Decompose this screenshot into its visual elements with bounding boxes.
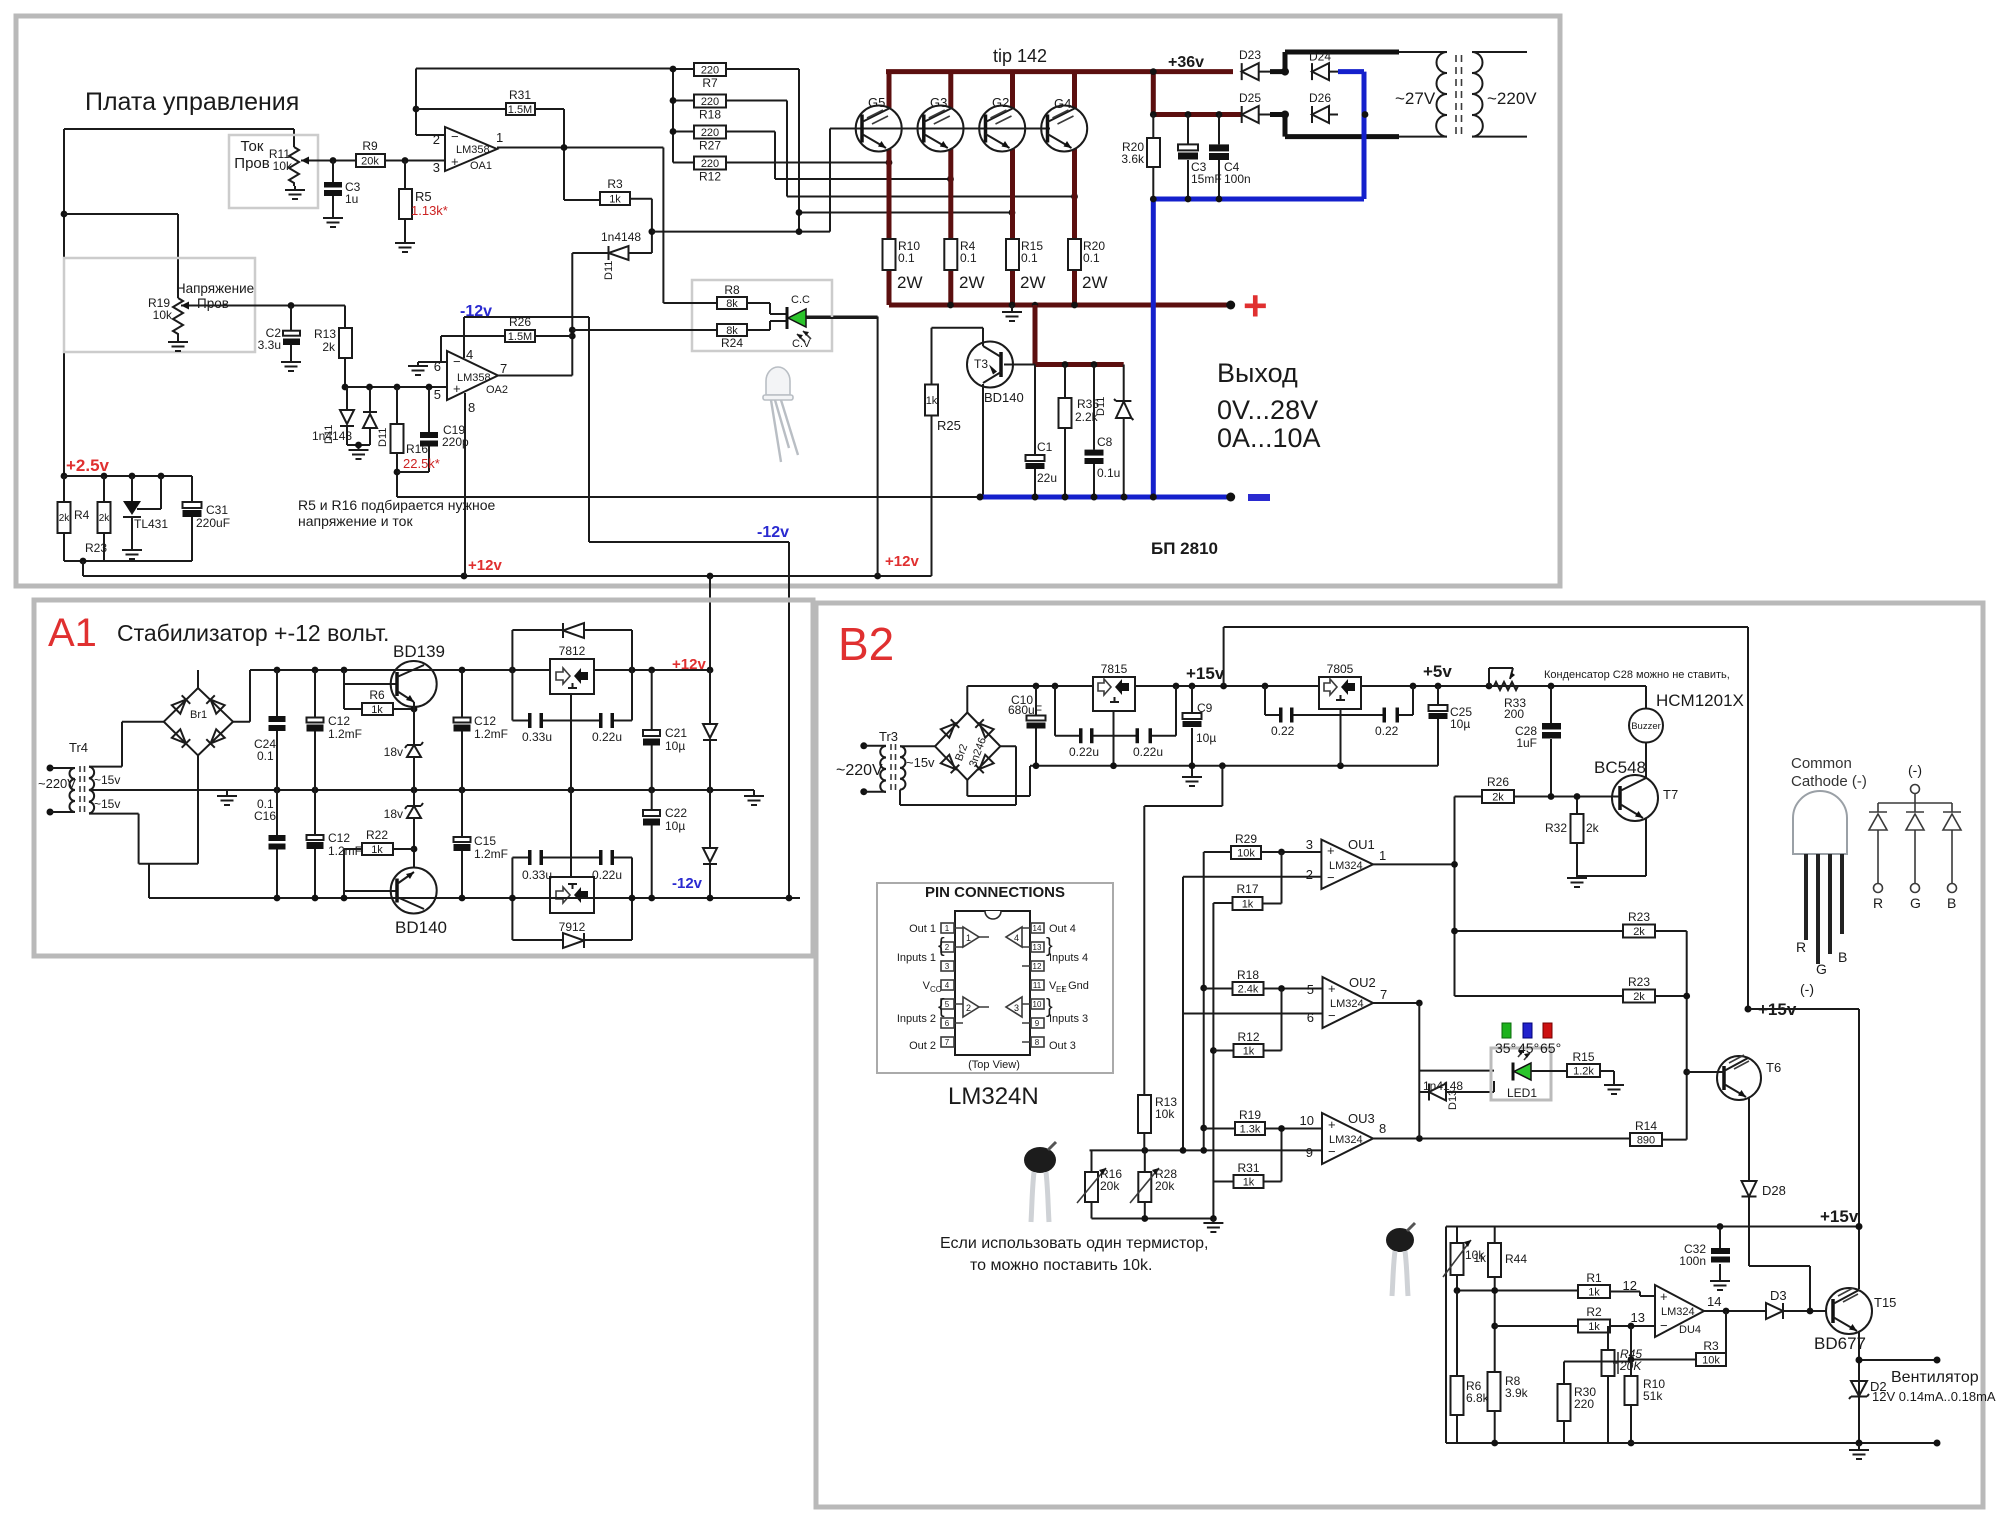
svg-text:2: 2 bbox=[1306, 867, 1313, 882]
svg-text:~15v: ~15v bbox=[906, 755, 935, 770]
svg-text:2k: 2k bbox=[322, 340, 336, 354]
svg-text:10µ: 10µ bbox=[665, 739, 685, 753]
svg-text:+12v: +12v bbox=[672, 656, 706, 673]
svg-text:1.3k: 1.3k bbox=[1240, 1124, 1261, 1136]
svg-text:12: 12 bbox=[1033, 962, 1042, 971]
svg-text:C8: C8 bbox=[1097, 435, 1113, 449]
svg-text:R27: R27 bbox=[699, 139, 721, 153]
svg-text:C12: C12 bbox=[328, 714, 350, 728]
svg-text:R19: R19 bbox=[1239, 1108, 1261, 1122]
svg-text:1k: 1k bbox=[1243, 1177, 1255, 1189]
svg-text:+: + bbox=[1243, 282, 1268, 329]
svg-text:2k: 2k bbox=[1586, 821, 1600, 835]
svg-text:3.3u: 3.3u bbox=[258, 338, 281, 352]
svg-text:0.1: 0.1 bbox=[257, 749, 274, 763]
svg-text:2: 2 bbox=[945, 943, 950, 952]
svg-text:Br1: Br1 bbox=[190, 709, 207, 721]
svg-text:2k: 2k bbox=[1633, 991, 1645, 1003]
svg-text:14: 14 bbox=[1033, 924, 1042, 933]
svg-text:2k: 2k bbox=[1633, 926, 1645, 938]
svg-text:-12v: -12v bbox=[757, 524, 789, 541]
svg-text:C21: C21 bbox=[665, 726, 687, 740]
svg-text:3.6k: 3.6k bbox=[1121, 152, 1145, 166]
svg-text:3: 3 bbox=[433, 160, 440, 175]
svg-text:R: R bbox=[1796, 939, 1806, 955]
svg-text:13: 13 bbox=[1033, 943, 1042, 952]
svg-text:LM358: LM358 bbox=[457, 372, 491, 384]
svg-text:65°: 65° bbox=[1540, 1040, 1561, 1056]
svg-text:G3: G3 bbox=[930, 95, 947, 110]
svg-text:R24: R24 bbox=[721, 336, 743, 350]
svg-text:R17: R17 bbox=[1236, 882, 1258, 896]
svg-text:1: 1 bbox=[966, 933, 971, 943]
svg-text:6: 6 bbox=[945, 1019, 950, 1028]
svg-text:51k: 51k bbox=[1643, 1389, 1663, 1403]
svg-text:BC548: BC548 bbox=[1594, 758, 1646, 777]
svg-text:D3: D3 bbox=[1770, 1288, 1787, 1303]
svg-text:+5v: +5v bbox=[1423, 662, 1452, 681]
svg-text:то можно поставить 10k.: то можно поставить 10k. bbox=[970, 1257, 1153, 1274]
svg-text:3.9k: 3.9k bbox=[1505, 1386, 1529, 1400]
svg-text:10k: 10k bbox=[273, 159, 293, 173]
svg-text:220p: 220p bbox=[442, 435, 469, 449]
svg-text:1k: 1k bbox=[609, 194, 621, 206]
svg-text:0.1: 0.1 bbox=[898, 251, 915, 265]
svg-text:−: − bbox=[1327, 870, 1335, 885]
svg-text:R12: R12 bbox=[1237, 1030, 1259, 1044]
svg-text:D28: D28 bbox=[1762, 1183, 1786, 1198]
svg-text:R18: R18 bbox=[1237, 968, 1259, 982]
svg-text:B: B bbox=[1947, 895, 1956, 911]
svg-text:Out 2: Out 2 bbox=[909, 1040, 936, 1052]
svg-text:D13: D13 bbox=[1447, 1090, 1459, 1110]
svg-text:20k: 20k bbox=[361, 156, 379, 168]
svg-text:2W: 2W bbox=[1082, 273, 1108, 292]
svg-text:1.2mF: 1.2mF bbox=[474, 847, 508, 861]
svg-text:1k: 1k bbox=[1243, 1046, 1255, 1058]
svg-text:напряжение и ток: напряжение и ток bbox=[298, 513, 413, 529]
svg-text:220: 220 bbox=[701, 65, 719, 77]
svg-text:0V...28V: 0V...28V bbox=[1217, 395, 1318, 425]
svg-text:7815: 7815 bbox=[1101, 662, 1128, 676]
svg-text:D11: D11 bbox=[377, 428, 389, 447]
svg-text:Inputs 1: Inputs 1 bbox=[897, 952, 936, 964]
svg-text:}: } bbox=[1046, 996, 1053, 1018]
svg-text:890: 890 bbox=[1637, 1135, 1655, 1147]
svg-text:C1: C1 bbox=[1037, 440, 1053, 454]
svg-text:1k: 1k bbox=[371, 704, 383, 716]
svg-text:15mF: 15mF bbox=[1191, 172, 1222, 186]
svg-text:R7: R7 bbox=[702, 76, 718, 90]
svg-text:D24: D24 bbox=[1309, 50, 1331, 64]
svg-text:Out 1: Out 1 bbox=[909, 923, 936, 935]
svg-text:Common: Common bbox=[1791, 755, 1852, 772]
svg-text:TL431: TL431 bbox=[134, 517, 168, 531]
svg-text:Стабилизатор +-12 вольт.: Стабилизатор +-12 вольт. bbox=[117, 620, 389, 646]
svg-text:8: 8 bbox=[1379, 1121, 1386, 1136]
svg-text:10µ: 10µ bbox=[1196, 731, 1216, 745]
svg-text:1k: 1k bbox=[1588, 1287, 1600, 1299]
svg-text:10µ: 10µ bbox=[1450, 717, 1470, 731]
svg-text:R3: R3 bbox=[607, 177, 623, 191]
svg-text:1k: 1k bbox=[1588, 1321, 1600, 1333]
svg-text:R16: R16 bbox=[406, 442, 428, 456]
svg-text:A1: A1 bbox=[48, 611, 97, 655]
svg-text:Buzzer: Buzzer bbox=[1631, 721, 1661, 732]
svg-text:4: 4 bbox=[466, 347, 473, 362]
svg-text:3: 3 bbox=[1306, 837, 1313, 852]
svg-text:+: + bbox=[451, 154, 459, 169]
svg-text:2.4k: 2.4k bbox=[1238, 984, 1259, 996]
svg-text:10k: 10k bbox=[1237, 848, 1255, 860]
svg-text:10: 10 bbox=[1033, 1000, 1042, 1009]
svg-text:R29: R29 bbox=[1235, 832, 1257, 846]
svg-text:+2.5v: +2.5v bbox=[66, 456, 110, 475]
svg-text:5: 5 bbox=[1307, 982, 1314, 997]
svg-text:3: 3 bbox=[1014, 1003, 1019, 1013]
svg-text:8: 8 bbox=[468, 400, 475, 415]
svg-text:G5: G5 bbox=[868, 95, 885, 110]
svg-text:{: { bbox=[938, 996, 945, 1018]
svg-text:B: B bbox=[1838, 949, 1847, 965]
svg-text:+: + bbox=[1328, 1117, 1336, 1132]
svg-text:R3: R3 bbox=[1703, 1339, 1719, 1353]
svg-text:D26: D26 bbox=[1309, 91, 1331, 105]
svg-text:LM324: LM324 bbox=[1330, 998, 1364, 1010]
svg-text:680uF: 680uF bbox=[1008, 703, 1042, 717]
svg-text:~220V: ~220V bbox=[1487, 89, 1537, 108]
svg-text:D25: D25 bbox=[1239, 91, 1261, 105]
svg-text:Плата управления: Плата управления bbox=[85, 88, 299, 116]
svg-text:100n: 100n bbox=[1679, 1254, 1706, 1268]
svg-text:0.22: 0.22 bbox=[1375, 724, 1399, 738]
svg-text:1n4148: 1n4148 bbox=[601, 230, 641, 244]
svg-text:C12: C12 bbox=[474, 714, 496, 728]
svg-text:35°: 35° bbox=[1495, 1040, 1516, 1056]
svg-text:20k: 20k bbox=[1155, 1179, 1175, 1193]
svg-text:R44: R44 bbox=[1505, 1252, 1527, 1266]
svg-text:CC: CC bbox=[930, 985, 942, 994]
svg-text:1u: 1u bbox=[345, 192, 358, 206]
svg-text:1.2k: 1.2k bbox=[1573, 1066, 1594, 1078]
svg-text:10: 10 bbox=[1300, 1113, 1314, 1128]
svg-text:2k: 2k bbox=[99, 513, 111, 524]
svg-text:1.2mF: 1.2mF bbox=[328, 727, 362, 741]
svg-text:0A...10A: 0A...10A bbox=[1217, 423, 1321, 453]
svg-text:7: 7 bbox=[1380, 987, 1387, 1002]
svg-text:B2: B2 bbox=[838, 618, 894, 670]
svg-text:LM358: LM358 bbox=[456, 144, 490, 156]
svg-text:Напряжение: Напряжение bbox=[176, 281, 254, 296]
svg-text:R31: R31 bbox=[509, 88, 531, 102]
svg-text:БП 2810: БП 2810 bbox=[1151, 539, 1218, 558]
svg-text:R14: R14 bbox=[1635, 1119, 1657, 1133]
svg-text:1.5M: 1.5M bbox=[508, 104, 532, 116]
svg-text:22.5k*: 22.5k* bbox=[403, 456, 440, 471]
svg-text:~27V: ~27V bbox=[1395, 89, 1436, 108]
svg-text:1.5M: 1.5M bbox=[508, 331, 532, 343]
svg-text:45°: 45° bbox=[1518, 1040, 1539, 1056]
svg-text:BD140: BD140 bbox=[395, 918, 447, 937]
svg-text:R8: R8 bbox=[724, 283, 740, 297]
svg-text:220: 220 bbox=[701, 127, 719, 139]
svg-text:2W: 2W bbox=[897, 273, 923, 292]
svg-text:G: G bbox=[1816, 961, 1827, 977]
svg-text:2: 2 bbox=[966, 1003, 971, 1013]
svg-text:R1: R1 bbox=[1586, 1271, 1602, 1285]
svg-text:Tr4: Tr4 bbox=[69, 740, 88, 755]
svg-text:10k: 10k bbox=[1702, 1355, 1720, 1367]
svg-text:}: } bbox=[1046, 935, 1053, 957]
svg-text:OU1: OU1 bbox=[1348, 837, 1375, 852]
svg-text:LM324N: LM324N bbox=[948, 1083, 1039, 1110]
svg-text:LM324: LM324 bbox=[1329, 860, 1363, 872]
svg-text:0.33u: 0.33u bbox=[522, 868, 552, 882]
svg-text:+12v: +12v bbox=[468, 557, 502, 574]
svg-text:D11: D11 bbox=[603, 261, 615, 280]
svg-text:(-): (-) bbox=[1908, 762, 1922, 778]
svg-text:C12: C12 bbox=[328, 831, 350, 845]
svg-text:R5: R5 bbox=[415, 189, 432, 204]
svg-text:9: 9 bbox=[1035, 1019, 1040, 1028]
svg-text:HCM1201X: HCM1201X bbox=[1656, 691, 1744, 710]
svg-text:1.2mF: 1.2mF bbox=[328, 844, 362, 858]
svg-text:2k: 2k bbox=[1492, 792, 1504, 804]
svg-text:10k: 10k bbox=[153, 308, 173, 322]
svg-text:0.1u: 0.1u bbox=[1097, 466, 1120, 480]
svg-text:~220V: ~220V bbox=[38, 776, 76, 791]
svg-text:LED1: LED1 bbox=[1507, 1086, 1537, 1100]
svg-text:1k: 1k bbox=[371, 844, 383, 856]
svg-text:220: 220 bbox=[1574, 1397, 1594, 1411]
svg-text:0.22u: 0.22u bbox=[592, 730, 622, 744]
svg-text:7: 7 bbox=[945, 1038, 950, 1047]
svg-text:1: 1 bbox=[945, 924, 950, 933]
svg-text:−: − bbox=[1328, 1144, 1336, 1159]
svg-text:4: 4 bbox=[945, 981, 950, 990]
svg-text:1.2mF: 1.2mF bbox=[474, 727, 508, 741]
svg-text:1k: 1k bbox=[1473, 1251, 1487, 1265]
svg-text:R25: R25 bbox=[937, 418, 961, 433]
svg-text:4: 4 bbox=[1014, 933, 1019, 943]
svg-text:3: 3 bbox=[945, 962, 950, 971]
svg-text:T15: T15 bbox=[1874, 1295, 1896, 1310]
svg-text:R18: R18 bbox=[699, 108, 721, 122]
svg-text:T6: T6 bbox=[1766, 1060, 1781, 1075]
svg-text:{: { bbox=[938, 935, 945, 957]
svg-text:C9: C9 bbox=[1197, 701, 1213, 715]
svg-text:2W: 2W bbox=[959, 273, 985, 292]
svg-text:Конденсатор C28 можно не стави: Конденсатор C28 можно не ставить, bbox=[1544, 669, 1730, 681]
svg-text:~220V: ~220V bbox=[836, 762, 883, 779]
svg-text:(Top View): (Top View) bbox=[968, 1059, 1020, 1071]
svg-text:7: 7 bbox=[500, 361, 507, 376]
svg-text:, Gnd: , Gnd bbox=[1062, 980, 1089, 992]
svg-text:Ток: Ток bbox=[241, 138, 264, 155]
svg-text:10µ: 10µ bbox=[665, 819, 685, 833]
svg-text:Inputs 2: Inputs 2 bbox=[897, 1013, 936, 1025]
svg-text:14: 14 bbox=[1707, 1294, 1721, 1309]
svg-text:BD139: BD139 bbox=[393, 642, 445, 661]
svg-text:R9: R9 bbox=[362, 139, 378, 153]
svg-text:0.22u: 0.22u bbox=[592, 868, 622, 882]
svg-text:200: 200 bbox=[1504, 707, 1524, 721]
svg-text:0.1: 0.1 bbox=[1083, 251, 1100, 265]
svg-text:R13: R13 bbox=[314, 327, 336, 341]
svg-text:Если использовать один термист: Если использовать один термистор, bbox=[940, 1235, 1208, 1252]
svg-text:Выход: Выход bbox=[1217, 358, 1298, 388]
svg-text:−: − bbox=[453, 354, 461, 369]
svg-text:0.22: 0.22 bbox=[1271, 724, 1295, 738]
svg-text:R26: R26 bbox=[1487, 775, 1509, 789]
svg-text:Пров: Пров bbox=[197, 296, 229, 311]
svg-text:R15: R15 bbox=[1572, 1050, 1594, 1064]
svg-text:R23: R23 bbox=[1628, 975, 1650, 989]
svg-text:BD140: BD140 bbox=[984, 390, 1024, 405]
svg-text:6: 6 bbox=[1307, 1010, 1314, 1025]
svg-text:Out 3: Out 3 bbox=[1049, 1040, 1076, 1052]
svg-text:13: 13 bbox=[1631, 1310, 1645, 1325]
svg-text:R2: R2 bbox=[1586, 1305, 1602, 1319]
svg-text:0.22u: 0.22u bbox=[1069, 745, 1099, 759]
svg-text:2W: 2W bbox=[1020, 273, 1046, 292]
svg-text:G2: G2 bbox=[992, 95, 1009, 110]
svg-text:1.13k*: 1.13k* bbox=[411, 203, 448, 218]
svg-text:PIN CONNECTIONS: PIN CONNECTIONS bbox=[925, 884, 1065, 901]
svg-text:18v: 18v bbox=[384, 745, 403, 759]
svg-text:+: + bbox=[1327, 843, 1335, 858]
svg-text:R4: R4 bbox=[74, 508, 90, 522]
svg-text:C31: C31 bbox=[206, 503, 228, 517]
svg-text:22u: 22u bbox=[1037, 471, 1057, 485]
svg-text:7812: 7812 bbox=[559, 644, 586, 658]
svg-text:+: + bbox=[1660, 1289, 1668, 1304]
svg-text:8: 8 bbox=[1035, 1038, 1040, 1047]
svg-text:100n: 100n bbox=[1224, 172, 1251, 186]
svg-text:12V 0.14mA..0.18mA: 12V 0.14mA..0.18mA bbox=[1872, 1389, 1996, 1404]
svg-text:1n4148: 1n4148 bbox=[312, 429, 352, 443]
svg-text:7805: 7805 bbox=[1327, 662, 1354, 676]
svg-text:G: G bbox=[1910, 895, 1921, 911]
svg-text:R23: R23 bbox=[85, 541, 107, 555]
svg-text:T7: T7 bbox=[1663, 787, 1678, 802]
svg-text:R23: R23 bbox=[1628, 910, 1650, 924]
svg-text:OA2: OA2 bbox=[486, 384, 508, 396]
svg-text:0.1: 0.1 bbox=[960, 251, 977, 265]
svg-text:C22: C22 bbox=[665, 806, 687, 820]
svg-text:5: 5 bbox=[434, 387, 441, 402]
svg-text:10k: 10k bbox=[1155, 1107, 1175, 1121]
svg-text:tip 142: tip 142 bbox=[993, 46, 1047, 66]
svg-text:18v: 18v bbox=[384, 807, 403, 821]
svg-text:20k: 20k bbox=[1100, 1179, 1120, 1193]
svg-text:12: 12 bbox=[1623, 1278, 1637, 1293]
svg-text:R: R bbox=[1873, 895, 1883, 911]
svg-text:D23: D23 bbox=[1239, 48, 1261, 62]
svg-text:−: − bbox=[451, 129, 459, 144]
svg-text:DU4: DU4 bbox=[1679, 1324, 1701, 1336]
svg-text:G4: G4 bbox=[1054, 96, 1071, 111]
svg-text:(-): (-) bbox=[1800, 981, 1814, 997]
svg-text:220: 220 bbox=[701, 158, 719, 170]
svg-text:Inputs 3: Inputs 3 bbox=[1049, 1013, 1088, 1025]
svg-text:LM324: LM324 bbox=[1329, 1134, 1363, 1146]
svg-text:R12: R12 bbox=[699, 170, 721, 184]
svg-text:R6: R6 bbox=[369, 688, 385, 702]
svg-text:C.C: C.C bbox=[791, 294, 810, 306]
svg-text:Cathode (-): Cathode (-) bbox=[1791, 773, 1867, 790]
svg-text:Inputs 4: Inputs 4 bbox=[1049, 952, 1088, 964]
svg-text:+: + bbox=[1328, 981, 1336, 996]
svg-text:~15v: ~15v bbox=[94, 797, 120, 811]
svg-text:R32: R32 bbox=[1545, 821, 1567, 835]
svg-text:LM324: LM324 bbox=[1661, 1306, 1695, 1318]
svg-text:+15v: +15v bbox=[1820, 1207, 1859, 1226]
svg-text:C16: C16 bbox=[254, 809, 276, 823]
svg-text:Out 4: Out 4 bbox=[1049, 923, 1076, 935]
svg-text:D11: D11 bbox=[1095, 397, 1107, 416]
svg-text:0.22u: 0.22u bbox=[1133, 745, 1163, 759]
svg-text:8k: 8k bbox=[726, 298, 738, 310]
svg-text:−: − bbox=[1328, 1008, 1336, 1023]
svg-text:220uF: 220uF bbox=[196, 516, 230, 530]
svg-text:R5 и R16 подбирается нужное: R5 и R16 подбирается нужное bbox=[298, 497, 496, 513]
svg-text:C15: C15 bbox=[474, 834, 496, 848]
svg-text:1k: 1k bbox=[1242, 899, 1254, 911]
svg-text:+12v: +12v bbox=[885, 553, 919, 570]
svg-text:0.1: 0.1 bbox=[1021, 251, 1038, 265]
svg-text:C.V: C.V bbox=[792, 338, 811, 350]
svg-text:2k: 2k bbox=[59, 513, 71, 524]
svg-text:Вентилятор: Вентилятор bbox=[1891, 1369, 1979, 1386]
svg-text:5: 5 bbox=[945, 1000, 950, 1009]
svg-text:R26: R26 bbox=[509, 315, 531, 329]
svg-text:T3: T3 bbox=[974, 357, 988, 371]
svg-text:OU3: OU3 bbox=[1348, 1111, 1375, 1126]
svg-text:Пров: Пров bbox=[234, 155, 269, 172]
svg-text:1: 1 bbox=[496, 130, 503, 145]
svg-text:-12v: -12v bbox=[672, 875, 703, 892]
svg-text:OU2: OU2 bbox=[1349, 975, 1376, 990]
svg-text:0.33u: 0.33u bbox=[522, 730, 552, 744]
svg-text:+15v: +15v bbox=[1186, 664, 1225, 683]
svg-text:9: 9 bbox=[1306, 1145, 1313, 1160]
svg-text:11: 11 bbox=[1033, 981, 1042, 990]
svg-text:1: 1 bbox=[1379, 848, 1386, 863]
svg-text:OA1: OA1 bbox=[470, 160, 492, 172]
svg-text:Tr3: Tr3 bbox=[879, 729, 898, 744]
svg-text:~15v: ~15v bbox=[94, 773, 120, 787]
svg-text:220: 220 bbox=[701, 96, 719, 108]
svg-text:R22: R22 bbox=[366, 828, 388, 842]
svg-text:6.8k: 6.8k bbox=[1466, 1391, 1490, 1405]
svg-text:7912: 7912 bbox=[559, 920, 586, 934]
svg-text:+36v: +36v bbox=[1168, 54, 1204, 71]
svg-text:1k: 1k bbox=[926, 395, 938, 407]
svg-text:−: − bbox=[1660, 1318, 1668, 1333]
svg-text:R31: R31 bbox=[1237, 1161, 1259, 1175]
svg-text:1uF: 1uF bbox=[1516, 736, 1537, 750]
